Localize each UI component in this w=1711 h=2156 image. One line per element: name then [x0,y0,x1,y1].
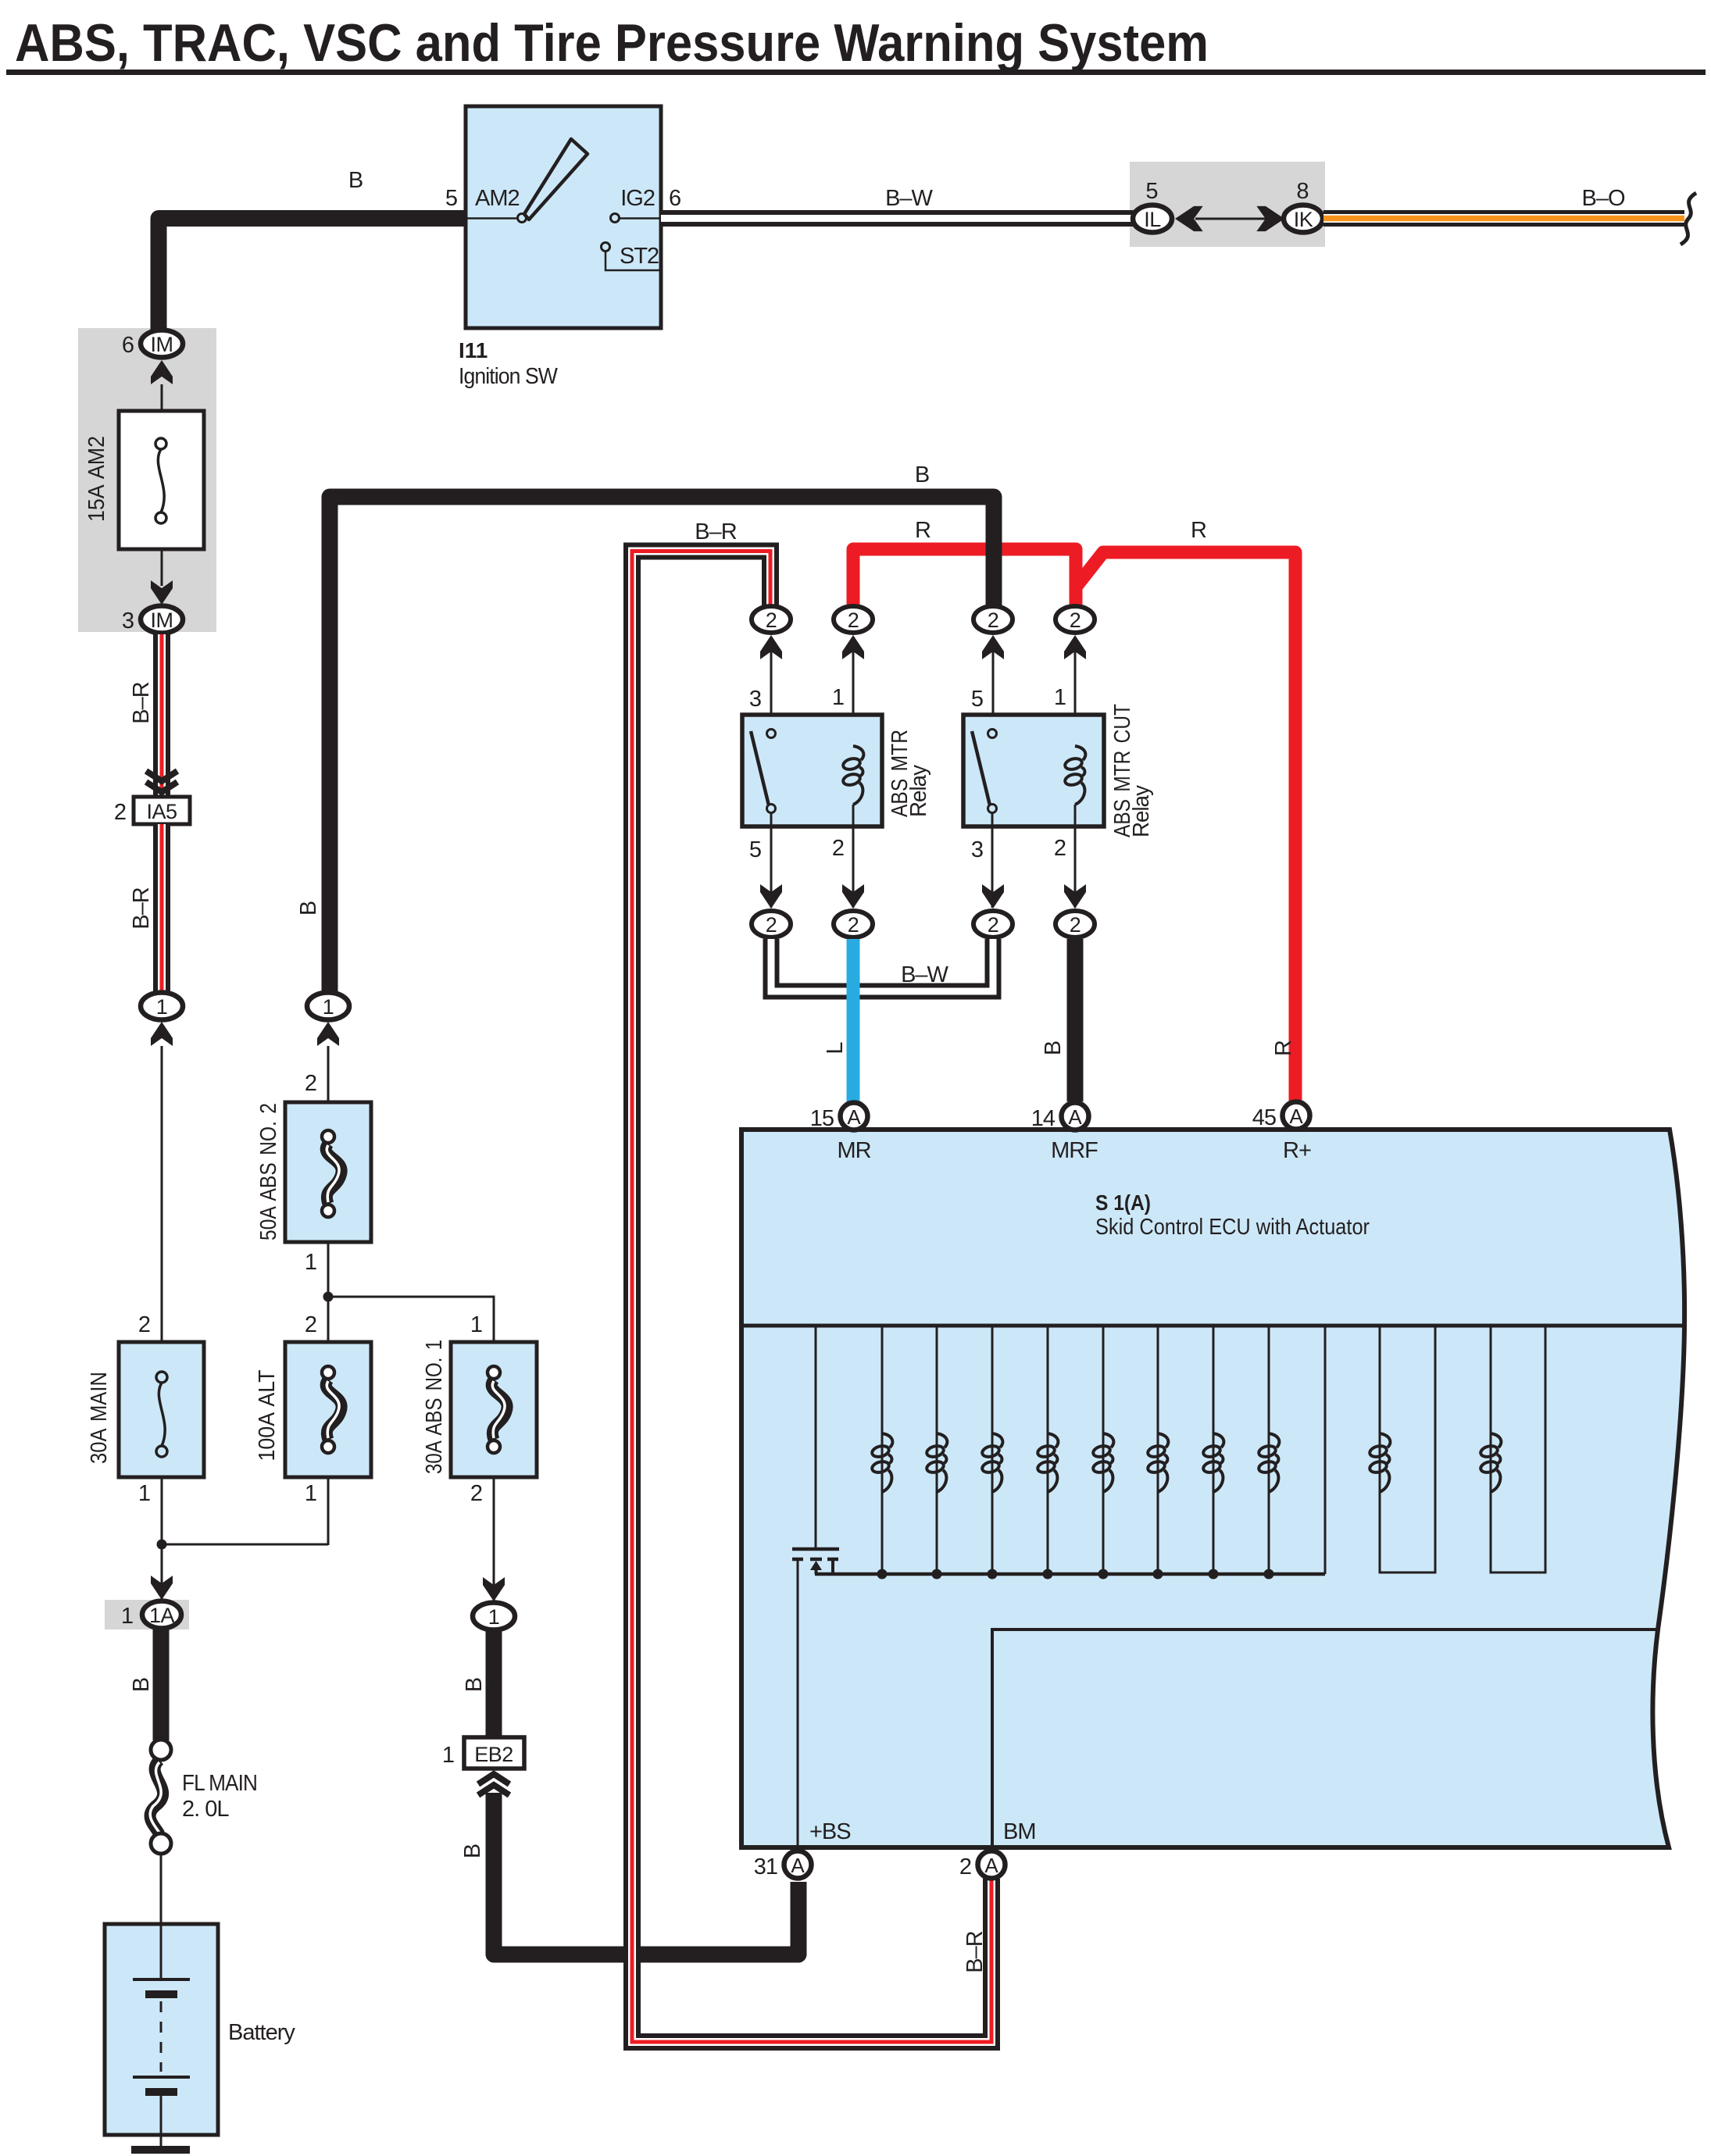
fuse 100A ALT element [322,1366,341,1453]
connector 2 oval (relay1 switch top) [752,606,791,633]
svg-text:1A: 1A [149,1604,175,1627]
relay1 top leads [770,649,773,729]
svg-text:2: 2 [114,800,126,825]
svg-text:30A MAIN: 30A MAIN [87,1372,112,1464]
arrow below [760,635,782,659]
connector IA5 box [134,797,190,824]
svg-text:8: 8 [1296,179,1308,204]
arrow into IM [151,360,173,384]
gray harness box (IM / 15A AM2 fuse) [78,328,216,632]
connector 2 oval (relay1 switch bottom) [752,911,791,937]
solenoid return line [1324,1326,1327,1574]
svg-text:45: 45 [1252,1105,1276,1130]
svg-text:IM: IM [151,333,173,356]
svg-text:B: B [460,1844,485,1858]
svg-text:IA5: IA5 [146,800,177,823]
svg-text:50A ABS NO. 2: 50A ABS NO. 2 [256,1103,281,1240]
svg-text:2: 2 [1070,609,1081,632]
svg-text:2: 2 [848,609,859,632]
svg-text:L: L [823,1042,848,1055]
solenoid coil 2 [926,1433,948,1492]
arrow into IK [1256,206,1284,231]
connector 1 oval (mid) [307,993,349,1020]
svg-text:1: 1 [832,685,844,710]
relay2 lever [972,731,990,805]
double chevron below EB2 [478,1774,509,1784]
svg-text:14: 14 [1031,1106,1056,1131]
IG2 contact [611,214,620,223]
arrow into bottom oval (relay2 coil) [1064,884,1086,908]
svg-text:ST2: ST2 [620,244,659,269]
svg-text:1: 1 [305,1250,316,1275]
branch wire to 30A ABS NO.1 [328,1297,494,1342]
svg-text:AM2: AM2 [475,186,520,211]
svg-text:2: 2 [766,609,777,632]
svg-text:2: 2 [470,1481,482,1506]
ground plate [131,2146,190,2154]
svg-text:IG2: IG2 [620,186,655,211]
svg-text:R: R [915,518,931,543]
solenoid coil 8 [1258,1433,1280,1492]
svg-text:MRF: MRF [1051,1138,1098,1163]
svg-text:31: 31 [754,1854,777,1879]
svg-text:2: 2 [138,1312,150,1337]
svg-text:B: B [296,901,321,916]
svg-text:B: B [915,462,929,487]
relay1 bottom leads [770,813,773,908]
svg-text:2: 2 [305,1071,316,1096]
svg-text:FL MAIN: FL MAIN [182,1771,257,1796]
wire B battery-to-AM2 (thick black) [159,219,466,332]
fuse 30A ABS NO.1 element [488,1366,507,1453]
title rule [6,70,1706,75]
arrow below [982,635,1004,659]
svg-text:1: 1 [488,1605,500,1629]
ECU BM partition [992,1629,1658,1847]
arrow into 1A [151,1576,173,1600]
gray label box (1A connector) [105,1600,189,1629]
svg-text:B–O: B–O [1581,186,1624,211]
connector 1A oval [142,1601,181,1629]
ECU divider line [741,1324,1684,1328]
arrow out of IL [1175,206,1203,231]
wire B-R (long loop: relay to BM) [632,551,991,2043]
svg-text:B–W: B–W [885,186,933,211]
wire B-W loop (relay1 sw to relay2 sw) [771,939,993,991]
junction dot [323,1292,334,1302]
AM2 contact [518,214,527,223]
relay ABS MTR CUT box [963,715,1104,826]
wire B to MRF [1067,939,1084,1101]
fuse 15A AM2 box [119,411,204,549]
svg-text:2: 2 [848,913,859,937]
relay2 switch contacts [988,730,997,738]
arrow below oval 1 [151,1022,173,1046]
relay2 top leads [992,649,995,729]
gray harness box (IL / IK) [1130,162,1325,247]
svg-text:B–W: B–W [901,962,948,987]
solenoid bus bar [815,1572,1325,1576]
pump coil 1 [1369,1433,1391,1492]
svg-text:1: 1 [305,1481,316,1506]
svg-text:A: A [1289,1105,1303,1128]
wire fuse to IM3 [161,549,163,586]
connector 2 oval (relay2 switch top) [973,606,1013,633]
connector 2 oval (relay2 switch bottom) [973,911,1013,937]
svg-text:5: 5 [971,687,983,712]
svg-text:15A AM2: 15A AM2 [84,436,109,522]
arrow into IM3 [151,580,173,605]
svg-text:1: 1 [323,995,334,1019]
relay1 switch contacts [767,730,776,738]
relay1 lever [751,731,769,805]
svg-text:5: 5 [749,837,761,862]
svg-text:R: R [1271,1041,1296,1056]
svg-text:100A ALT: 100A ALT [255,1369,280,1461]
connector 6 IM oval [141,330,183,358]
connector A2 [978,1851,1006,1879]
connector 1 oval (EB2 col) [473,1603,515,1630]
connector IL oval [1133,205,1172,233]
svg-text:2: 2 [1070,913,1081,937]
solenoid line 1 [881,1326,884,1574]
wire 50A to 100A ALT [327,1242,330,1342]
switch lever [524,139,588,220]
svg-text:R: R [1191,518,1206,543]
ST2 lead [605,252,661,270]
solenoid coil 3 [981,1433,1003,1492]
svg-text:R+: R+ [1283,1138,1311,1163]
svg-text:6: 6 [669,186,680,211]
svg-text:IK: IK [1294,208,1313,231]
solenoid line 4 [1047,1326,1049,1574]
wire oval1 to 30A MAIN [161,1046,163,1342]
svg-text:1: 1 [138,1481,150,1506]
branch wire to 100A ALT [162,1544,328,1546]
arrow into bottom oval (relay2 switch) [982,884,1004,908]
wire L (cyan) to MR [847,939,860,1101]
ECU solenoid feed line (transistor drain) [815,1326,817,1548]
svg-text:IM: IM [151,609,173,632]
solenoid line 2 [936,1326,938,1574]
wire R (MR relay feed) [853,549,1076,609]
svg-text:2: 2 [988,609,999,632]
solenoid coil 7 [1202,1433,1224,1492]
svg-text:3: 3 [122,609,134,634]
connector 3 IM oval [141,606,183,634]
svg-text:15: 15 [810,1106,834,1131]
bus junction dots [877,1569,888,1580]
IG2 lead [620,217,661,220]
connector 2 oval (relay2 coil top) [1056,606,1095,633]
svg-text:1: 1 [1054,685,1066,710]
svg-text:EB2: EB2 [474,1743,513,1766]
double chevron into IA5 [146,771,177,781]
svg-text:2: 2 [1054,836,1066,861]
fusible link FL MAIN [151,1740,171,1760]
svg-text:B: B [129,1678,154,1692]
wire B-R IA5 to junction 1 [153,824,170,992]
connector A31 [784,1851,812,1879]
fuse 15A AM2 element [158,449,164,512]
ignition switch box I11 [466,106,661,328]
connector 2 oval (relay1 coil bottom) [834,911,873,937]
svg-text:2: 2 [766,913,777,937]
wire B vertical over R crossing [986,539,1002,609]
svg-text:B–R: B–R [695,519,736,544]
svg-text:Relay: Relay [906,765,931,817]
svg-text:1: 1 [442,1743,454,1768]
arrow into connector 1 [483,1577,505,1601]
svg-text:2: 2 [959,1854,971,1879]
relay1 coil [842,746,864,805]
svg-text:B–R: B–R [963,1931,988,1972]
svg-text:1: 1 [470,1312,482,1337]
svg-text:MR: MR [837,1138,870,1163]
connector 1 oval (left) [141,993,183,1020]
AM2 contact lead [466,217,518,220]
svg-text:30A ABS NO. 1: 30A ABS NO. 1 [422,1340,447,1474]
connector A45 [1283,1102,1310,1130]
connector IK oval [1284,205,1323,233]
pump loop 1 [1380,1326,1435,1572]
svg-text:5: 5 [445,186,457,211]
solenoid line 7 [1213,1326,1215,1574]
arrow below [842,635,864,659]
wire 100A ALT to junction [327,1477,330,1545]
fuse 30A ABS NO.1 box [451,1342,537,1477]
svg-text:IL: IL [1144,208,1161,231]
connector EB2 box [464,1737,524,1769]
arrow into bottom oval (relay1 coil) [842,884,864,908]
svg-text:Relay: Relay [1129,785,1154,837]
wire B-R IM3 to IA5 [153,634,170,797]
svg-text:ABS, TRAC, VSC and Tire Pressu: ABS, TRAC, VSC and Tire Pressure Warning… [15,13,1209,73]
wire B to EB2 [486,1631,502,1737]
svg-text:6: 6 [122,333,134,358]
svg-text:1: 1 [156,995,168,1019]
relay2 bottom leads [991,813,994,908]
junction wire IL-IK [1195,218,1267,220]
svg-text:Battery: Battery [228,2020,295,2045]
svg-text:Skid Control ECU with Actuator: Skid Control ECU with Actuator [1095,1215,1370,1240]
solenoid coil 5 [1092,1433,1114,1492]
wire B-W ignition to IL [661,210,1134,227]
battery internals [160,1924,163,1979]
svg-text:2: 2 [305,1312,316,1337]
svg-text:+BS: +BS [809,1819,851,1844]
svg-text:B–R: B–R [129,682,154,723]
solenoid line 8 [1268,1326,1270,1574]
wire B 1A to FL MAIN [153,1629,170,1740]
svg-text:Ignition SW: Ignition SW [459,364,558,389]
svg-text:3: 3 [749,687,761,712]
solenoid coil 1 [871,1433,893,1492]
connector 2 oval (relay1 coil top) [834,606,873,633]
wire 30A ABS NO.1 down [493,1477,495,1603]
+BS internal line [797,1559,799,1847]
fuse 50A ABS NO.2 box [285,1102,371,1242]
svg-text:A: A [1068,1105,1082,1129]
connector 2 oval (relay2 coil bottom) [1056,911,1095,937]
transistor Q (solenoid driver) [792,1549,839,1574]
svg-text:B–R: B–R [129,887,154,929]
arrow below oval 1 [317,1022,339,1046]
svg-text:B: B [462,1678,487,1692]
wire FL MAIN to battery [160,1854,163,1926]
solenoid coil 4 [1037,1433,1059,1492]
svg-text:2. 0L: 2. 0L [182,1797,229,1822]
pump loop 2 [1491,1326,1545,1572]
ST2 contact [602,243,610,252]
wire B-O from IK [1323,210,1684,227]
svg-text:BM: BM [1003,1819,1036,1844]
wire oval to 50A ABS NO.2 [327,1046,330,1102]
svg-text:B: B [348,168,363,193]
svg-text:A: A [847,1105,861,1129]
svg-text:2: 2 [988,913,999,937]
fuse 30A MAIN element [159,1383,165,1446]
relay2 coil [1064,746,1086,805]
pump coil 2 [1480,1433,1502,1492]
wire to fuse [161,384,163,411]
wire B (heavy) from top run down to connector 1 [330,497,994,992]
wire B EB2 to +BS [494,1793,798,1954]
solenoid line 3 [991,1326,994,1574]
svg-text:2: 2 [832,836,844,861]
relay ABS MTR box [742,715,882,826]
arrow below [1064,635,1086,659]
wire break symbol [1681,193,1696,245]
fuse 100A ALT box [285,1342,371,1477]
svg-text:1: 1 [121,1604,133,1629]
battery box [105,1924,218,2135]
svg-text:S 1(A): S 1(A) [1095,1190,1151,1215]
solenoid coil 6 [1147,1433,1169,1492]
junction dot [157,1540,167,1550]
svg-text:5: 5 [1145,179,1157,204]
fuse 50A ABS NO.2 element [322,1130,341,1217]
wire 30A MAIN to 1A [161,1477,163,1601]
svg-text:I11: I11 [459,338,488,362]
wire R (R+ feed) [1077,552,1295,1101]
connector A14 [1062,1103,1089,1130]
solenoid line 6 [1157,1326,1159,1574]
ECU S1(A) box [741,1130,1684,1847]
fuse 30A MAIN box [119,1342,204,1477]
svg-text:B: B [1041,1041,1066,1055]
solenoid line 5 [1102,1326,1105,1574]
arrow into bottom oval (relay1 switch) [760,884,782,908]
svg-text:A: A [791,1854,805,1877]
connector A15 [841,1103,868,1130]
svg-text:3: 3 [971,837,983,862]
svg-text:A: A [984,1854,998,1877]
